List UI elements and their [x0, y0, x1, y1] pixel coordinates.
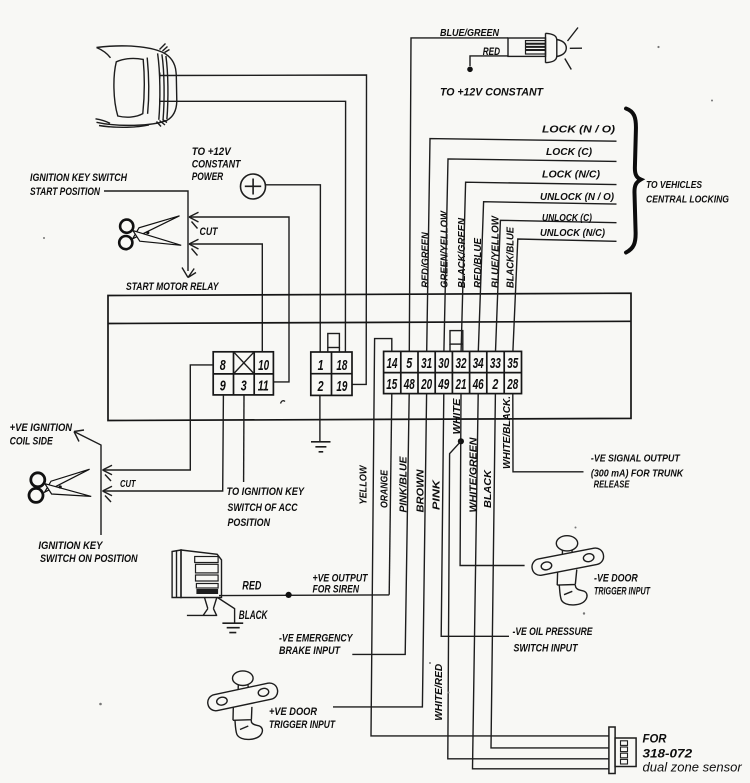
svg-text:18: 18: [336, 358, 348, 374]
svg-text:PINK: PINK: [432, 479, 443, 510]
svg-text:IGNITION KEY: IGNITION KEY: [38, 540, 103, 552]
label TO IGNITION KEY SWITCH OF ACC POSITION: [227, 486, 306, 529]
svg-text:8: 8: [220, 358, 227, 374]
wire pin 8 to +VE ignition coil side arrow: [103, 365, 214, 481]
svg-text:15: 15: [386, 377, 398, 393]
connector C1 (start motor relay plug): [213, 352, 273, 395]
tab above connector C2: [328, 334, 340, 353]
svg-text:PINK/BLUE: PINK/BLUE: [398, 455, 409, 512]
svg-text:UNLOCK (C): UNLOCK (C): [542, 213, 592, 224]
wire siren black to ground: [217, 597, 234, 623]
label -VE DOOR TRIGGER INPUT: [594, 573, 651, 598]
svg-text:2: 2: [317, 379, 324, 395]
siren: [172, 550, 221, 615]
wire yellow pin 14 to dual zone sensor: [371, 339, 609, 736]
svg-text:14: 14: [387, 356, 398, 372]
wire unlock n/o to pin 34: [478, 202, 616, 352]
svg-text:+VE IGNITION: +VE IGNITION: [10, 422, 73, 434]
svg-text:10: 10: [258, 358, 269, 374]
label +VE OUTPUT FOR SIREN: [313, 573, 369, 596]
label -VE SIGNAL OUTPUT (300 mA) FOR TRUNK RELEASE: [591, 454, 684, 491]
label IGNITION KEY SWITCH ON POSITION: [38, 540, 138, 565]
wire white/black pin 28 to trunk release: [513, 394, 584, 472]
svg-text:COIL SIDE: COIL SIDE: [10, 436, 54, 448]
scissors upper: [119, 216, 181, 249]
svg-text:1: 1: [318, 358, 324, 374]
svg-text:3: 3: [241, 379, 247, 395]
scissors lower: [29, 469, 91, 502]
svg-text:LOCK (N/C): LOCK (N/C): [542, 170, 601, 181]
svg-text:21: 21: [455, 377, 467, 393]
svg-text:CUT: CUT: [120, 479, 136, 490]
wire cut lower to pin 10 of connector C1: [189, 239, 262, 351]
label -VE OIL PRESSURE SWITCH INPUT: [513, 626, 594, 655]
svg-text:WHITE/BLACK.: WHITE/BLACK.: [502, 396, 513, 469]
svg-text:WHITE: WHITE: [452, 397, 463, 434]
svg-text:IGNITION KEY SWITCH: IGNITION KEY SWITCH: [30, 172, 128, 184]
svg-text:SWITCH ON POSITION: SWITCH ON POSITION: [40, 553, 138, 565]
svg-text:TO IGNITION KEY: TO IGNITION KEY: [227, 486, 306, 498]
svg-text:TO +12V CONSTANT: TO +12V CONSTANT: [440, 86, 544, 98]
svg-text:BLUE/GREEN: BLUE/GREEN: [440, 28, 500, 39]
wire +12V battery to pin 1 of connector C2: [266, 185, 321, 352]
arrow and stub wire ignition coil side: [74, 430, 101, 535]
control unit box: [108, 293, 631, 420]
svg-text:RED/GREEN: RED/GREEN: [420, 232, 431, 288]
svg-text:2: 2: [492, 377, 499, 393]
svg-text:TO VEHICLES: TO VEHICLES: [646, 180, 702, 191]
wire pin 3 to ACC position: [243, 395, 245, 482]
label FOR 318-072 dual zone sensor: [643, 732, 743, 775]
svg-text:-VE SIGNAL OUTPUT: -VE SIGNAL OUTPUT: [591, 454, 681, 465]
svg-text:CONSTANT: CONSTANT: [192, 158, 242, 170]
svg-text:SWITCH OF ACC: SWITCH OF ACC: [228, 502, 299, 514]
wire blue/green from lamp down to pin 5: [409, 38, 508, 352]
svg-text:-VE DOOR: -VE DOOR: [594, 573, 638, 585]
wire pink pin 49 to oil pressure switch: [441, 394, 509, 637]
svg-text:RELEASE: RELEASE: [594, 480, 631, 491]
wire white/red branch to dual zone sensor: [448, 441, 609, 759]
wire ignition start to start motor relay arrow: [104, 191, 196, 278]
wire siren +ve output with junction dot: [219, 592, 389, 598]
svg-text:(300 mA) FOR TRUNK: (300 mA) FOR TRUNK: [591, 468, 684, 479]
wire cut upper to pin 11 of connector C1: [189, 212, 289, 382]
svg-text:-VE OIL PRESSURE: -VE OIL PRESSURE: [513, 626, 594, 638]
svg-text:318-072: 318-072: [643, 747, 693, 761]
label TO VEHICLES CENTRAL LOCKING: [646, 180, 729, 206]
svg-text:dual zone sensor: dual zone sensor: [643, 760, 743, 775]
wire pink/blue pin 48 to emergency brake: [352, 394, 409, 655]
svg-text:49: 49: [438, 377, 450, 393]
sparkle top of car: [157, 44, 170, 127]
svg-text:RED: RED: [242, 578, 261, 592]
svg-text:RED: RED: [483, 46, 500, 58]
svg-text:11: 11: [258, 379, 269, 395]
ground symbol siren: [222, 623, 243, 632]
svg-text:BLACK: BLACK: [239, 608, 269, 622]
svg-text:20: 20: [420, 377, 432, 393]
connector C2 (power plug): [311, 352, 352, 395]
svg-text:YELLOW: YELLOW: [358, 464, 369, 504]
wire pin 2 to ground: [319, 395, 321, 441]
svg-text:TRIGGER INPUT: TRIGGER INPUT: [594, 586, 651, 598]
svg-text:48: 48: [403, 377, 415, 393]
door pin switch right: [531, 536, 605, 605]
svg-text:46: 46: [472, 377, 484, 393]
svg-text:19: 19: [336, 379, 347, 395]
wire car upper to pin 19 of connector C2: [160, 75, 367, 384]
wire lock n/c to pin 32: [461, 182, 616, 351]
scan speckles: [281, 401, 286, 404]
label TO +12V CONSTANT POWER: [192, 146, 242, 183]
wire unlock n/c to pin 35: [513, 239, 617, 351]
svg-text:FOR: FOR: [643, 732, 667, 746]
wire pin 9 to ignition key switch on position: [103, 395, 224, 502]
svg-text:START MOTOR RELAY: START MOTOR RELAY: [126, 281, 220, 293]
svg-text:CENTRAL LOCKING: CENTRAL LOCKING: [646, 195, 729, 206]
svg-text:BROWN: BROWN: [416, 469, 427, 513]
svg-text:UNLOCK (N/C): UNLOCK (N/C): [540, 228, 606, 239]
brace to vehicles central locking: [626, 109, 641, 253]
svg-text:UNLOCK (N / O): UNLOCK (N / O): [540, 192, 615, 203]
svg-text:TO +12V: TO +12V: [192, 146, 232, 158]
svg-text:32: 32: [456, 356, 467, 372]
svg-text:5: 5: [406, 356, 413, 372]
svg-text:30: 30: [438, 356, 449, 372]
svg-text:BLACK: BLACK: [483, 469, 494, 508]
svg-text:28: 28: [507, 377, 519, 393]
label ignition key switch start position: [30, 172, 128, 198]
svg-text:WHITE/GREEN: WHITE/GREEN: [468, 437, 479, 513]
battery symbol +12V constant power: [241, 174, 266, 199]
svg-text:-VE EMERGENCY: -VE EMERGENCY: [279, 633, 354, 645]
svg-text:LOCK (N / O): LOCK (N / O): [542, 125, 616, 136]
junction dot white/red branch: [458, 438, 464, 444]
ground symbol below connector C2: [311, 442, 331, 452]
svg-text:31: 31: [421, 356, 432, 372]
svg-text:9: 9: [220, 379, 226, 395]
wire white pin 21 to door trigger right: [460, 394, 524, 566]
wire unlock c to pin 33: [496, 220, 617, 351]
connector C3 (main 16-pin plug): [384, 351, 522, 393]
car: [96, 46, 177, 127]
label +VE DOOR TRIGGER INPUT: [269, 706, 336, 731]
wire orange pin 15 to siren output: [389, 394, 392, 595]
lamp (courtesy light): [508, 28, 582, 70]
label -VE EMERGENCY BRAKE INPUT: [279, 633, 354, 658]
wire lock c to pin 30: [444, 159, 617, 352]
svg-text:BLACK/BLUE: BLACK/BLUE: [506, 226, 517, 288]
svg-text:START POSITION: START POSITION: [30, 186, 101, 198]
svg-text:WHITE/RED: WHITE/RED: [434, 663, 445, 721]
svg-text:FOR SIREN: FOR SIREN: [313, 584, 360, 596]
wire car lower to pin 18 of connector C2: [160, 101, 346, 351]
wire white/green pin 46 to dual zone sensor: [473, 394, 609, 769]
wire red from lamp with terminal dot: [467, 56, 508, 72]
svg-text:LOCK (C): LOCK (C): [546, 147, 593, 158]
wire lock n/o to pin 31: [427, 139, 617, 352]
svg-text:SWITCH INPUT: SWITCH INPUT: [514, 643, 579, 655]
svg-text:+VE DOOR: +VE DOOR: [269, 706, 317, 718]
svg-text:POWER: POWER: [192, 171, 224, 183]
svg-text:33: 33: [490, 356, 501, 372]
svg-text:TRIGGER INPUT: TRIGGER INPUT: [269, 719, 336, 731]
wire brown pin 20 to door trigger left: [333, 394, 427, 707]
svg-text:CUT: CUT: [200, 226, 219, 238]
tab above connector C3: [450, 331, 463, 352]
connector dual zone sensor: [609, 727, 636, 774]
wire black pin 2 to dual zone sensor: [491, 394, 609, 748]
svg-text:34: 34: [473, 356, 484, 372]
svg-text:BRAKE INPUT: BRAKE INPUT: [279, 645, 341, 657]
svg-text:ORANGE: ORANGE: [379, 469, 390, 508]
svg-text:POSITION: POSITION: [228, 517, 271, 529]
svg-text:35: 35: [507, 356, 519, 372]
label +VE IGNITION COIL SIDE: [10, 422, 73, 448]
door pin switch left: [206, 671, 279, 740]
